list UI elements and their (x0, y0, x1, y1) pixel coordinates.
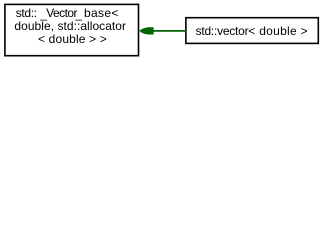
wire: arrow shaft (153, 30, 186, 32)
svg-text:std::vector< double >: std::vector< double > (196, 24, 308, 38)
svg-text:< double > >: < double > > (38, 32, 107, 46)
arrowhead pointing at base class (139, 27, 153, 34)
inheritance arrow (dark green, derived to base) (139, 27, 186, 34)
svg-text:double, std::allocator: double, std::allocator (14, 19, 126, 33)
class box std::vector< double > (derived class node) (186, 18, 318, 44)
class box std::_Vector_base (base class node) (5, 4, 139, 55)
